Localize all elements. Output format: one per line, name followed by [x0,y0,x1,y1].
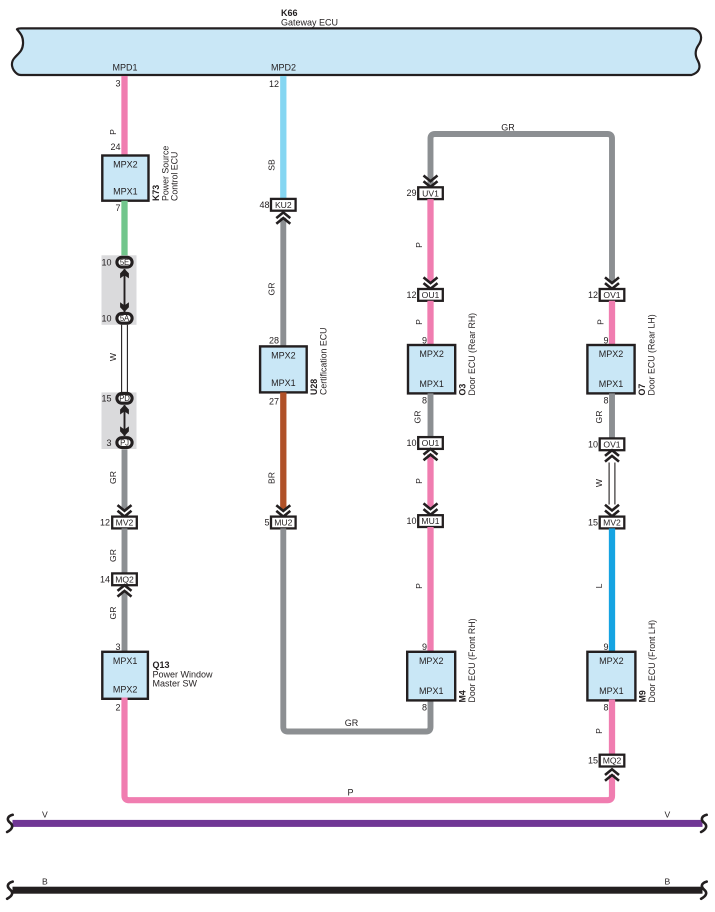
svg-text:3: 3 [115,79,120,89]
svg-text:7: 7 [115,203,120,213]
svg-text:OU1: OU1 [422,290,440,300]
svg-text:Control ECU: Control ECU [170,152,180,201]
svg-text:P: P [414,319,424,325]
svg-text:12: 12 [588,290,598,300]
svg-text:15: 15 [101,394,111,404]
svg-text:5A: 5A [120,314,130,323]
svg-text:5E: 5E [120,258,129,267]
svg-text:12: 12 [100,518,110,528]
svg-text:PD: PD [119,394,130,403]
svg-text:10: 10 [101,258,111,268]
svg-text:MQ2: MQ2 [115,574,134,584]
svg-text:KU2: KU2 [275,200,292,210]
svg-text:MPX2: MPX2 [419,656,444,666]
svg-text:9: 9 [422,642,427,652]
svg-text:MPX1: MPX1 [599,379,624,389]
svg-text:P: P [414,583,424,589]
svg-text:MU1: MU1 [421,516,439,526]
svg-text:GR: GR [501,123,515,133]
svg-text:GR: GR [108,471,118,484]
svg-text:K66: K66 [281,8,298,18]
svg-text:MPD2: MPD2 [271,63,296,73]
svg-text:GR: GR [108,607,118,620]
svg-text:15: 15 [588,518,598,528]
svg-text:M4: M4 [458,690,468,702]
svg-text:GR: GR [345,718,359,728]
svg-text:W: W [594,478,604,487]
svg-text:P: P [594,728,604,734]
svg-text:2: 2 [115,703,120,713]
svg-text:K73: K73 [151,185,161,201]
svg-text:8: 8 [422,396,427,406]
svg-text:SB: SB [267,159,277,171]
svg-text:BR: BR [267,472,277,484]
svg-text:MPX1: MPX1 [113,187,138,197]
svg-text:P: P [414,478,424,484]
svg-text:U28: U28 [309,379,319,395]
svg-text:10: 10 [101,314,111,324]
svg-text:8: 8 [603,396,608,406]
svg-text:UV1: UV1 [422,188,439,198]
svg-text:MPX2: MPX2 [419,349,444,359]
svg-text:O3: O3 [458,384,468,396]
svg-text:12: 12 [406,290,416,300]
svg-text:Door ECU (Front RH): Door ECU (Front RH) [467,618,477,702]
svg-text:24: 24 [110,142,120,152]
svg-text:10: 10 [406,438,416,448]
svg-text:5: 5 [264,518,269,528]
svg-text:Gateway ECU: Gateway ECU [281,18,338,28]
svg-text:12: 12 [269,79,279,89]
svg-text:8: 8 [422,703,427,713]
svg-text:MQ2: MQ2 [603,756,622,766]
svg-text:V: V [665,810,671,820]
svg-text:10: 10 [588,439,598,449]
svg-text:MV2: MV2 [603,518,621,528]
svg-text:MPX2: MPX2 [599,656,624,666]
svg-text:3: 3 [106,438,111,448]
svg-text:MPX1: MPX1 [419,379,444,389]
svg-text:MPD1: MPD1 [112,63,137,73]
svg-text:Door ECU (Rear LH): Door ECU (Rear LH) [646,314,656,395]
svg-text:GR: GR [413,411,423,424]
svg-text:MPX1: MPX1 [599,686,624,696]
svg-text:10: 10 [406,516,416,526]
svg-text:L: L [594,583,604,588]
svg-text:OV1: OV1 [603,290,620,300]
svg-text:MPX2: MPX2 [113,160,138,170]
svg-text:O7: O7 [637,384,647,396]
svg-text:GR: GR [594,411,604,424]
svg-text:OV1: OV1 [603,439,620,449]
svg-text:GR: GR [267,283,277,296]
svg-text:OU1: OU1 [422,438,440,448]
svg-text:3: 3 [115,642,120,652]
svg-text:M9: M9 [638,690,648,702]
svg-text:PJ: PJ [120,439,129,448]
svg-text:9: 9 [603,642,608,652]
svg-text:GR: GR [108,549,118,562]
svg-text:MV2: MV2 [116,518,134,528]
svg-text:29: 29 [406,188,416,198]
svg-text:28: 28 [269,336,279,346]
svg-text:MU2: MU2 [274,518,292,528]
svg-text:MPX2: MPX2 [599,349,624,359]
svg-text:MPX1: MPX1 [271,378,296,388]
svg-text:14: 14 [100,575,110,585]
svg-text:8: 8 [603,703,608,713]
svg-text:MPX1: MPX1 [419,686,444,696]
svg-text:Certification ECU: Certification ECU [319,328,329,395]
svg-text:P: P [596,319,606,325]
svg-text:Q13: Q13 [153,660,170,670]
svg-text:P: P [414,242,424,248]
svg-text:MPX2: MPX2 [271,350,296,360]
svg-text:Door ECU (Rear RH): Door ECU (Rear RH) [467,313,477,396]
svg-text:B: B [665,876,671,886]
svg-text:P: P [108,129,118,135]
svg-text:MPX2: MPX2 [113,685,138,695]
svg-text:B: B [42,876,48,886]
svg-text:MPX1: MPX1 [113,656,138,666]
svg-text:15: 15 [588,756,598,766]
svg-text:27: 27 [269,397,279,407]
svg-text:Master SW: Master SW [153,679,198,689]
svg-text:Door ECU (Front LH): Door ECU (Front LH) [647,620,657,703]
svg-text:V: V [42,810,48,820]
svg-text:W: W [108,352,118,361]
svg-text:P: P [347,788,353,798]
svg-text:48: 48 [259,200,269,210]
